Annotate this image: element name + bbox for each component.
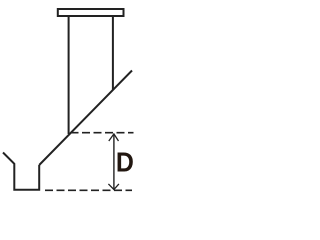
left pipe wall (wire) — [68, 16, 70, 134]
lower dashed reference line — [45, 189, 132, 191]
right pipe wall (wire) — [112, 16, 114, 90]
dimension arrowhead top — [109, 134, 119, 141]
svg-text:D: D — [116, 147, 134, 178]
dimension arrowhead bottom — [108, 184, 119, 190]
dimension arrow shaft — [113, 134, 115, 190]
inclined chute line — [39, 71, 132, 166]
upper dashed reference line — [71, 132, 134, 134]
hopper outline — [3, 153, 39, 190]
top flange plate — [58, 9, 124, 16]
